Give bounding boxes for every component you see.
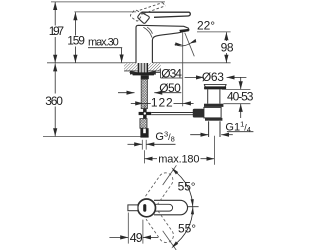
deck bottom line bbox=[124, 70, 161, 72]
arc arrowhead mid down bbox=[191, 199, 194, 207]
22 deg stream line bbox=[185, 33, 195, 57]
top view: lever ghost down 55deg (dashed) bbox=[146, 211, 176, 246]
svg-text:22°: 22° bbox=[197, 19, 215, 33]
dimension 40-53 bbox=[240, 78, 242, 90]
lever raised ghost shaft (dashed, 22 deg) bbox=[140, 3, 163, 11]
svg-text:40-53: 40-53 bbox=[227, 90, 254, 104]
dimension max.180 bbox=[143, 150, 145, 163]
dimension 159 bbox=[74, 11, 136, 13]
dimension 40-53 extension lines bbox=[222, 88, 250, 90]
dimension O50 bbox=[118, 92, 135, 94]
svg-text:122: 122 bbox=[151, 95, 173, 109]
extension line spout outlet level bbox=[197, 31, 231, 33]
svg-text:max.30: max.30 bbox=[88, 36, 119, 48]
threaded rod upper bbox=[141, 79, 147, 108]
extension line top (raised lever tip level) bbox=[51, 1, 165, 3]
22 deg arc arrowhead right bbox=[190, 39, 197, 44]
washer (O50) bbox=[132, 72, 154, 75]
svg-text:98: 98 bbox=[221, 41, 234, 55]
arc arrowhead mid up bbox=[191, 207, 194, 214]
dimension tail width bbox=[141, 140, 143, 150]
extension line tail end level bbox=[43, 136, 149, 138]
radial extension line lower 55deg bbox=[163, 231, 177, 250]
dimension 122 bbox=[131, 102, 143, 104]
svg-text:55°: 55° bbox=[178, 180, 196, 194]
top view: rear tab bbox=[128, 205, 138, 211]
waste lower body bbox=[204, 107, 221, 118]
arc arrowhead upper end bbox=[171, 167, 178, 174]
lever raised ghost base (dashed) bbox=[130, 10, 142, 21]
pop-up rod pivot cross bbox=[143, 109, 147, 119]
tail end nut bbox=[140, 128, 148, 137]
svg-text:49: 49 bbox=[130, 231, 143, 245]
dimension O63 bbox=[185, 76, 204, 78]
svg-text:55°: 55° bbox=[178, 222, 196, 236]
dimension 49 bbox=[127, 213, 129, 244]
top view: body circle bbox=[138, 199, 156, 217]
dimension O34 bbox=[130, 72, 138, 74]
svg-text:197: 197 bbox=[49, 24, 65, 38]
pop-up waste: flange top O63 bbox=[204, 84, 226, 86]
radial extension line upper 55deg bbox=[163, 165, 177, 185]
swivel arc 55deg bbox=[173, 170, 193, 246]
dimension G1 1/4 bbox=[190, 134, 208, 136]
lever base dome bbox=[138, 13, 150, 24]
top view: lever (solid) bbox=[154, 200, 188, 215]
waste centerline bbox=[213, 136, 215, 165]
top view: lever ghost up 55deg (dashed) bbox=[145, 170, 175, 205]
dimension 360 bbox=[54, 63, 56, 93]
deck cross-section hatch right bbox=[148, 63, 161, 70]
dimension 197 bbox=[54, 2, 56, 26]
waste locknut band bbox=[205, 118, 222, 121]
faucet body outline (side view) bbox=[136, 25, 189, 63]
svg-text:max.180: max.180 bbox=[158, 154, 199, 166]
mounting nut bbox=[141, 75, 149, 79]
deck cross-section hatch left bbox=[124, 63, 138, 70]
22 deg arc arrowhead left bbox=[175, 42, 183, 45]
pivot extension tick bbox=[144, 105, 146, 109]
svg-text:Ø50: Ø50 bbox=[159, 81, 181, 95]
svg-text:360: 360 bbox=[45, 94, 63, 108]
arc arrowhead lower end bbox=[171, 241, 178, 248]
svg-text:Ø63: Ø63 bbox=[202, 70, 224, 84]
top view: lever slot bbox=[143, 204, 146, 212]
waste upper body bbox=[207, 89, 209, 103]
water stream extension line bbox=[182, 33, 184, 107]
waste tailpipe bbox=[208, 121, 210, 137]
waste rod boss bbox=[193, 109, 204, 118]
waste seal ring bbox=[204, 104, 223, 107]
body funnel detail bbox=[143, 27, 152, 37]
lever handle (closed, solid) bbox=[142, 12, 191, 17]
extension line deck level bbox=[47, 62, 136, 64]
threaded tail G3/8 bbox=[140, 119, 147, 129]
shank through deck bbox=[138, 63, 147, 73]
pop-up rod to waste bbox=[151, 112, 195, 114]
aerator outlet bbox=[179, 29, 189, 33]
22 deg angle arc bbox=[175, 41, 194, 46]
arc tick at lever tip bbox=[188, 206, 199, 208]
svg-text:Ø34: Ø34 bbox=[161, 66, 182, 80]
dimension 98 bbox=[225, 32, 227, 41]
svg-text:159: 159 bbox=[67, 33, 85, 47]
